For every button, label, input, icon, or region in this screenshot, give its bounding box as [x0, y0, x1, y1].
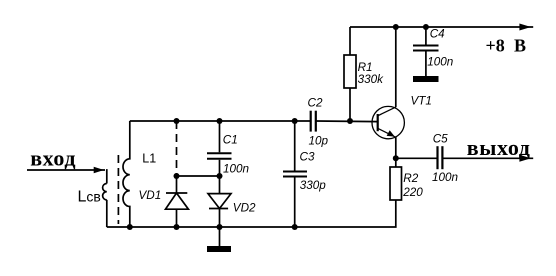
- svg-text:330k: 330k: [358, 73, 385, 86]
- svg-text:100n: 100n: [432, 171, 458, 184]
- svg-text:выход: выход: [467, 135, 531, 160]
- transistor VT1: [372, 106, 404, 138]
- node C1 bottom: [217, 173, 223, 179]
- svg-text:C5: C5: [433, 132, 448, 145]
- svg-text:100n: 100n: [223, 162, 249, 175]
- svg-text:C1: C1: [223, 134, 238, 147]
- svg-text:C2: C2: [308, 96, 323, 109]
- diode VD2: [208, 176, 231, 227]
- svg-text:C4: C4: [430, 28, 445, 41]
- svg-text:VD1: VD1: [139, 189, 162, 202]
- svg-text:R2: R2: [403, 172, 418, 185]
- node VD1 top: [174, 173, 180, 179]
- svg-text:100n: 100n: [427, 55, 453, 68]
- capacitor C4: [413, 27, 439, 76]
- resistor R1: [344, 27, 356, 121]
- wire dashed branch to VD1: [176, 121, 178, 176]
- wire top rail left section: [130, 120, 311, 122]
- wire bottom rail: [107, 200, 396, 227]
- node C4 top: [423, 24, 429, 30]
- inductor L1: [123, 121, 130, 227]
- wire emitter to C5: [396, 157, 438, 159]
- svg-text:220: 220: [402, 186, 423, 199]
- node VD2 bottom: [217, 224, 223, 230]
- wire emitter down: [395, 137, 397, 167]
- node VD1 bottom: [174, 224, 180, 230]
- svg-text:+8: +8: [486, 35, 505, 55]
- wire VD1-C1 link: [177, 175, 220, 177]
- node emitter: [393, 155, 399, 161]
- wire collector: [395, 27, 397, 107]
- ground bar (VD2): [207, 246, 231, 252]
- svg-text:10p: 10p: [309, 134, 329, 147]
- wire top power rail: [350, 26, 533, 28]
- capacitor C5: [438, 146, 443, 169]
- diode VD1: [166, 176, 189, 227]
- capacitor C2: [311, 111, 316, 132]
- transformer core (dashed): [117, 155, 119, 224]
- node input corner: [105, 170, 108, 184]
- svg-text:вход: вход: [30, 145, 76, 170]
- wire Lсв bottom lead: [106, 200, 108, 227]
- node junction top dashed: [174, 118, 180, 124]
- node L1 bottom: [127, 224, 133, 230]
- resistor R2: [390, 167, 402, 200]
- node junction top C3: [292, 118, 298, 124]
- node junction base R1: [347, 118, 353, 124]
- node junction top C1: [217, 118, 223, 124]
- power arrowhead: [519, 24, 531, 31]
- svg-text:VT1: VT1: [411, 95, 432, 108]
- output arrowhead: [519, 155, 531, 162]
- capacitor C3: [283, 121, 307, 227]
- inductor Lсв: [103, 184, 107, 200]
- svg-text:R1: R1: [358, 61, 373, 74]
- svg-text:VD2: VD2: [233, 202, 256, 215]
- ground stub VD2: [219, 227, 221, 246]
- svg-text:330p: 330p: [300, 179, 327, 192]
- svg-text:В: В: [514, 35, 526, 55]
- ground bar (C4): [413, 76, 439, 82]
- wire input horizontal: [27, 169, 105, 171]
- node collector top: [393, 24, 399, 30]
- svg-text:C3: C3: [300, 150, 315, 163]
- wire C2 to base: [316, 120, 378, 123]
- capacitor C1: [207, 121, 232, 176]
- svg-text:L1: L1: [142, 152, 156, 166]
- svg-text:Lсв: Lсв: [78, 189, 101, 206]
- node C3 bottom: [292, 224, 298, 230]
- input arrowhead: [94, 167, 104, 174]
- wire output: [442, 157, 533, 159]
